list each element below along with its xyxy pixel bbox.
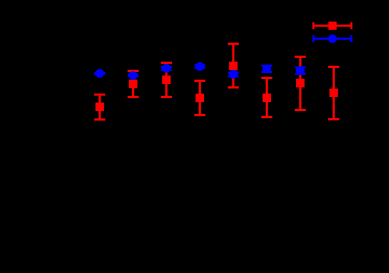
red errorbar point 3 <box>161 63 172 97</box>
blue errorbar point 3 <box>161 64 172 73</box>
blue errorbar point 2 <box>128 71 139 80</box>
blue errorbar point 1 <box>94 69 105 78</box>
blue errorbar point 6 <box>261 65 272 74</box>
blue errorbar point 7 <box>295 66 306 75</box>
red errorbar point 8 <box>328 67 339 119</box>
red errorbar point 5 <box>228 44 239 88</box>
legend red errorbar sample <box>313 22 352 30</box>
blue errorbar point 4 <box>194 62 205 71</box>
red errorbar point 2 <box>128 71 139 97</box>
red errorbar point 6 <box>261 78 272 117</box>
red errorbar point 1 <box>94 95 105 120</box>
red errorbar point 7 <box>295 57 306 110</box>
legend blue errorbar sample <box>313 34 352 43</box>
blue errorbar point 5 <box>228 70 239 79</box>
red errorbar point 4 <box>194 81 205 115</box>
